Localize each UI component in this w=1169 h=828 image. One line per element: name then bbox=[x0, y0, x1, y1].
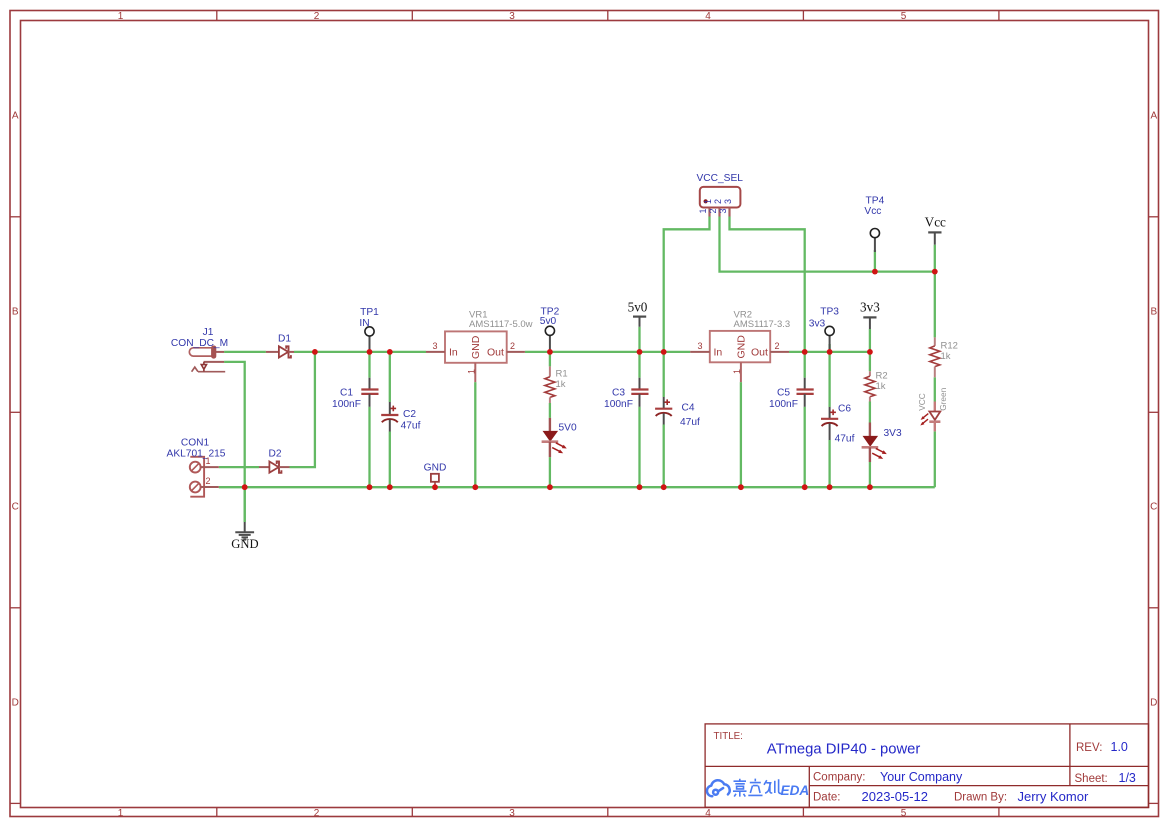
row letters left bbox=[12, 111, 19, 709]
column numbers top bbox=[118, 11, 907, 22]
svg-text:GND: GND bbox=[470, 335, 482, 359]
LED VCC Green bbox=[920, 402, 940, 432]
junction 5v0 node bbox=[637, 349, 643, 355]
svg-text:VCC_SEL: VCC_SEL bbox=[696, 173, 743, 184]
wire TP2/R1 branch bbox=[549, 352, 551, 367]
svg-text:1: 1 bbox=[118, 11, 124, 22]
svg-text:B: B bbox=[12, 306, 19, 317]
svg-text:4: 4 bbox=[705, 11, 711, 22]
row ticks left bbox=[10, 217, 21, 804]
svg-text:C: C bbox=[12, 502, 19, 513]
svg-text:5v0: 5v0 bbox=[628, 300, 648, 315]
svg-text:GND: GND bbox=[231, 537, 258, 551]
svg-text:1.0: 1.0 bbox=[1111, 740, 1128, 754]
row letters right bbox=[1150, 111, 1157, 709]
svg-text:R1: R1 bbox=[556, 369, 568, 380]
power flag 3v3 bbox=[860, 300, 880, 330]
connector J1 CON_DC_M barrel jack bbox=[189, 346, 225, 372]
svg-text:2: 2 bbox=[314, 11, 320, 22]
wire VR1 GND pin to rail bbox=[474, 382, 476, 487]
svg-text:2: 2 bbox=[206, 476, 211, 486]
svg-text:3: 3 bbox=[509, 808, 515, 819]
svg-text:D2: D2 bbox=[268, 449, 281, 460]
svg-text:CON1: CON1 bbox=[181, 438, 210, 449]
svg-text:2: 2 bbox=[708, 208, 718, 213]
svg-text:REV:: REV: bbox=[1076, 742, 1102, 754]
svg-text:C1: C1 bbox=[340, 388, 353, 399]
svg-text:C4: C4 bbox=[682, 403, 695, 414]
connector CON1 AKL701_215 bbox=[190, 457, 219, 497]
svg-text:3V3: 3V3 bbox=[884, 428, 902, 439]
svg-text:C2: C2 bbox=[403, 409, 416, 420]
diode D2 bbox=[259, 462, 290, 473]
svg-text:C3: C3 bbox=[612, 388, 625, 399]
svg-text:5V0: 5V0 bbox=[559, 422, 577, 433]
column ticks bottom bbox=[217, 808, 999, 817]
svg-text:2: 2 bbox=[774, 341, 779, 351]
svg-text:Your Company: Your Company bbox=[880, 770, 963, 784]
wire LED3 to rail corner bbox=[934, 431, 936, 487]
wire R12 to LED3 bbox=[934, 377, 936, 401]
svg-text:Drawn By:: Drawn By: bbox=[954, 792, 1007, 804]
junction rail LED1 bbox=[547, 484, 553, 490]
junction 3v3 node bbox=[867, 349, 873, 355]
junction at D1 node bbox=[312, 349, 318, 355]
capacitor C6 polarized bbox=[821, 407, 838, 440]
wire D2 right to main wire vertical bbox=[290, 352, 315, 467]
svg-text:GND: GND bbox=[424, 463, 447, 474]
svg-text:Sheet:: Sheet: bbox=[1075, 773, 1108, 785]
wire C5 branch below VR2 out node bbox=[804, 352, 806, 378]
wire VCC_SEL pin3 to VR2 Out node bbox=[730, 217, 805, 352]
test point TP1 bbox=[365, 327, 374, 352]
svg-text:47uf: 47uf bbox=[835, 434, 855, 445]
column numbers bottom bbox=[118, 808, 907, 819]
svg-text:R2: R2 bbox=[876, 371, 888, 382]
junction C4 node bbox=[661, 349, 667, 355]
wire C4 to rail bbox=[663, 425, 665, 488]
svg-text:ATmega DIP40 - power: ATmega DIP40 - power bbox=[767, 742, 921, 758]
svg-text:B: B bbox=[1150, 306, 1157, 317]
svg-text:2: 2 bbox=[510, 341, 515, 351]
svg-text:47uf: 47uf bbox=[401, 421, 421, 432]
svg-text:3: 3 bbox=[432, 341, 437, 351]
svg-text:100nF: 100nF bbox=[604, 399, 633, 410]
junction VR2 out node bbox=[802, 349, 808, 355]
svg-text:Jerry Komor: Jerry Komor bbox=[1018, 789, 1089, 804]
junction TP3 node bbox=[827, 349, 833, 355]
svg-text:1: 1 bbox=[118, 808, 124, 819]
capacitor C4 polarized bbox=[655, 397, 672, 425]
svg-text:AKL701_215: AKL701_215 bbox=[167, 449, 226, 460]
wire CON1 pin1 to D2 bbox=[219, 466, 259, 468]
jumper VCC_SEL bbox=[700, 187, 741, 217]
svg-text:1k: 1k bbox=[941, 351, 951, 362]
capacitor C2 polarized bbox=[381, 402, 398, 432]
JLCEDA logo text 嘉立创 bbox=[733, 779, 781, 797]
svg-text:D: D bbox=[1150, 697, 1157, 708]
JLCEDA logo cloud icon bbox=[707, 780, 730, 796]
resistor R1 bbox=[545, 366, 555, 403]
svg-text:In: In bbox=[714, 347, 723, 359]
wire C2 branch bbox=[389, 352, 391, 402]
junction rail C6 bbox=[827, 484, 833, 490]
power flag Vcc bbox=[925, 215, 946, 245]
ground rail wire bbox=[219, 486, 935, 488]
wire TP3 stem lower bbox=[828, 344, 830, 352]
svg-text:3v3: 3v3 bbox=[809, 319, 826, 330]
svg-text:C6: C6 bbox=[838, 404, 851, 415]
svg-text:C: C bbox=[1150, 502, 1157, 513]
svg-text:1: 1 bbox=[732, 369, 742, 374]
svg-text:J1: J1 bbox=[203, 327, 214, 338]
wire VCC_SEL pin2 to Vcc line bbox=[720, 217, 935, 272]
svg-text:CON_DC_M: CON_DC_M bbox=[171, 338, 228, 349]
wire D1 to VR1 In bbox=[294, 351, 426, 353]
svg-text:GND: GND bbox=[736, 335, 748, 359]
svg-text:3v3: 3v3 bbox=[860, 300, 880, 315]
LED 3V3 bbox=[862, 423, 887, 463]
wire R2 branch bbox=[869, 352, 871, 371]
svg-text:TP1: TP1 bbox=[360, 307, 379, 318]
svg-text:D: D bbox=[12, 697, 19, 708]
svg-text:EDA: EDA bbox=[781, 783, 810, 798]
wire J1 pin1 to D1 bbox=[224, 351, 266, 353]
wire 3v3 flag stem lower bbox=[869, 329, 871, 352]
row ticks right bbox=[1149, 217, 1159, 804]
junction rail GND flag bbox=[432, 484, 438, 490]
wire TP1/C1 branch bbox=[368, 352, 370, 378]
svg-text:TP3: TP3 bbox=[820, 307, 839, 318]
svg-text:5: 5 bbox=[901, 11, 907, 22]
junction Vcc line bbox=[932, 269, 938, 275]
svg-text:AMS1117-3.3: AMS1117-3.3 bbox=[734, 319, 791, 330]
capacitor C3 bbox=[631, 378, 648, 407]
svg-text:2: 2 bbox=[314, 808, 320, 819]
junction rail CON1 bbox=[242, 484, 248, 490]
svg-text:R12: R12 bbox=[941, 341, 958, 352]
resistor R2 bbox=[865, 371, 875, 401]
power flag 5v0 bbox=[628, 300, 648, 327]
junction TP1 node bbox=[367, 349, 373, 355]
regulator VR2 AMS1117-3.3 bbox=[690, 331, 789, 382]
svg-text:47uf: 47uf bbox=[680, 417, 700, 428]
junction rail LED2 bbox=[867, 484, 873, 490]
svg-text:C5: C5 bbox=[777, 388, 790, 399]
wire J1 pin2 to GND vertical bbox=[224, 362, 245, 522]
wire Vcc flag to R12 bbox=[934, 245, 936, 338]
svg-text:2023-05-12: 2023-05-12 bbox=[862, 789, 929, 804]
ground symbol GND (earth) bbox=[235, 522, 254, 540]
junction rail C3 bbox=[637, 484, 643, 490]
svg-text:Green: Green bbox=[938, 387, 948, 410]
wire VR2 GND pin to rail bbox=[740, 382, 742, 487]
wire LED2 to rail bbox=[869, 462, 871, 487]
junction rail C2 bbox=[387, 484, 393, 490]
wire TP4 stem bbox=[874, 250, 876, 272]
svg-text:Company:: Company: bbox=[813, 772, 865, 784]
LED 5V0 bbox=[542, 418, 567, 457]
capacitor C1 bbox=[361, 378, 378, 407]
junction rail C1 bbox=[367, 484, 373, 490]
resistor R12 bbox=[930, 337, 940, 377]
svg-text:Out: Out bbox=[487, 347, 504, 359]
svg-text:5: 5 bbox=[901, 808, 907, 819]
wire C6 branch bbox=[828, 352, 830, 407]
wire VR1 Out to VR2 In bbox=[525, 351, 690, 353]
junction rail C4 bbox=[661, 484, 667, 490]
capacitor C5 bbox=[797, 378, 814, 407]
svg-text:Vcc: Vcc bbox=[925, 215, 946, 230]
junction C2 node bbox=[387, 349, 393, 355]
svg-text:IN: IN bbox=[359, 318, 369, 329]
svg-text:1k: 1k bbox=[556, 379, 566, 390]
svg-text:2: 2 bbox=[713, 199, 723, 204]
svg-text:Vcc: Vcc bbox=[864, 206, 881, 217]
wire VCC_SEL pin1 to C4 node bbox=[664, 217, 710, 398]
svg-text:AMS1117-5.0w: AMS1117-5.0w bbox=[469, 319, 533, 330]
test point TP2 bbox=[545, 326, 554, 352]
test point TP4 bbox=[870, 229, 879, 253]
svg-text:100nF: 100nF bbox=[769, 399, 798, 410]
svg-text:3: 3 bbox=[723, 199, 733, 204]
svg-text:Date:: Date: bbox=[813, 792, 841, 804]
svg-text:In: In bbox=[449, 347, 458, 359]
diode D1 bbox=[266, 346, 294, 357]
regulator VR1 AMS1117-5.0w bbox=[426, 331, 525, 382]
junction rail VR1 gnd bbox=[472, 484, 478, 490]
svg-text:100nF: 100nF bbox=[332, 399, 361, 410]
svg-text:1: 1 bbox=[698, 208, 708, 213]
svg-text:1: 1 bbox=[703, 199, 713, 204]
svg-text:1: 1 bbox=[467, 369, 477, 374]
net flag GND near VR1 bbox=[431, 474, 439, 487]
svg-text:D1: D1 bbox=[278, 334, 291, 345]
svg-text:1: 1 bbox=[206, 456, 211, 466]
svg-text:1/3: 1/3 bbox=[1119, 771, 1136, 785]
wire LED1 cathode to rail bbox=[549, 457, 551, 487]
svg-text:Out: Out bbox=[751, 347, 768, 359]
svg-text:1k: 1k bbox=[876, 381, 886, 392]
svg-text:3: 3 bbox=[697, 341, 702, 351]
junction rail C5 bbox=[802, 484, 808, 490]
svg-text:5v0: 5v0 bbox=[540, 316, 557, 327]
svg-text:A: A bbox=[12, 111, 19, 122]
junction rail VR2 gnd bbox=[738, 484, 744, 490]
wire 5v0 flag / C3 branch bbox=[638, 327, 640, 378]
svg-text:TITLE:: TITLE: bbox=[714, 731, 743, 742]
junction TP2 node bbox=[547, 349, 553, 355]
test point TP3 bbox=[825, 326, 834, 352]
wire VR2 Out to 3v3 node bbox=[789, 351, 870, 353]
wire GND symbol stem green bbox=[244, 487, 246, 522]
title block frame bbox=[705, 724, 1148, 807]
svg-text:3: 3 bbox=[718, 208, 728, 213]
svg-text:4: 4 bbox=[705, 808, 711, 819]
svg-text:VCC: VCC bbox=[917, 393, 927, 411]
column ticks top bbox=[217, 10, 999, 21]
svg-text:A: A bbox=[1150, 111, 1157, 122]
junction TP4 on Vcc wire bbox=[872, 269, 878, 275]
svg-text:3: 3 bbox=[509, 11, 515, 22]
